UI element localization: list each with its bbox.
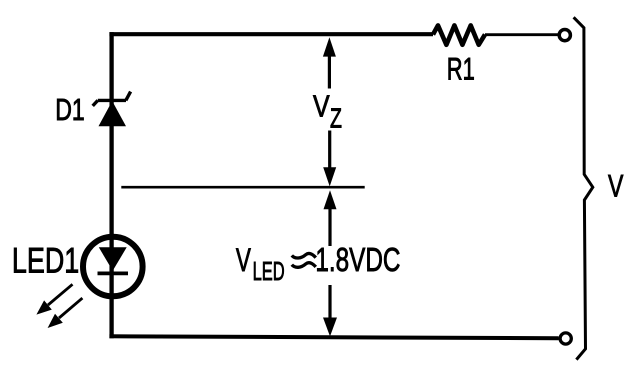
Vled dimension arrow lower (points down to bottom wire) [323,285,337,336]
svg-text:LED: LED [253,256,285,286]
terminal top-right (open circle) [559,29,570,40]
LED light arrow 2 [48,298,83,328]
svg-text:V: V [236,242,251,278]
svg-text:D1: D1 [55,93,84,127]
wire resistor to top terminal [485,33,558,36]
label Vz [313,89,342,134]
middle reference line [121,186,364,189]
LED1 triangle (pointing down) [99,247,127,270]
svg-text:Z: Z [330,103,342,134]
LED1 circle [83,237,143,297]
svg-text:1.8VDC: 1.8VDC [315,242,400,279]
LED1 cathode bar [98,271,129,275]
zener D1 triangle (anode, pointing up) [99,101,127,126]
resistor R1 [433,25,485,44]
Vz dimension arrow upper (points up to top wire) [323,37,336,88]
svg-text:V: V [608,168,623,204]
wire left vertical [109,32,113,338]
LED light arrow 1 [36,284,72,314]
wire top horizontal [109,32,433,36]
Vz dimension arrow lower (points down to middle line) [323,131,336,187]
terminal bottom-right (open circle) [560,333,571,344]
svg-text:LED1: LED1 [12,241,79,280]
svg-text:R1: R1 [447,51,475,87]
Vled dimension arrow upper (points up to middle line) [324,190,337,246]
zener diode D1: cathode bar with bent tails [93,92,131,106]
label Vled ~ 1.8VDC [236,242,401,286]
wire bottom horizontal [109,336,558,338]
svg-text:V: V [313,89,330,124]
right brace for V [574,17,593,359]
